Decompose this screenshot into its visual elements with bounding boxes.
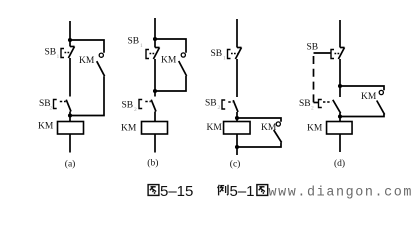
svg-text:SB: SB: [299, 99, 311, 109]
svg-text:SB: SB: [45, 47, 57, 57]
svg-text:KM: KM: [79, 56, 95, 66]
svg-text:2: 2: [218, 105, 221, 111]
svg-text:SB: SB: [205, 99, 217, 109]
svg-text:KM: KM: [361, 92, 377, 102]
svg-text:KM: KM: [307, 124, 323, 134]
svg-text:(a): (a): [65, 159, 76, 170]
svg-text:2: 2: [50, 106, 53, 112]
svg-text:SB: SB: [211, 49, 223, 59]
svg-text:KM: KM: [121, 124, 137, 134]
svg-text:KM: KM: [38, 122, 54, 132]
svg-text:5–1: 5–1: [230, 183, 255, 200]
svg-text:(b): (b): [147, 158, 158, 169]
svg-text:www.diangon.com: www.diangon.com: [269, 185, 413, 200]
svg-text:5–15: 5–15: [160, 183, 193, 200]
svg-text:SB: SB: [307, 43, 319, 53]
svg-text:1: 1: [223, 56, 226, 62]
svg-text:SB: SB: [128, 37, 140, 47]
svg-text:KM: KM: [161, 56, 177, 66]
svg-text:(c): (c): [230, 159, 241, 170]
svg-text:KM: KM: [261, 123, 277, 133]
svg-text:2: 2: [134, 107, 137, 113]
svg-text:2: 2: [311, 105, 314, 111]
svg-text:KM: KM: [207, 123, 223, 133]
svg-text:(d): (d): [334, 158, 345, 169]
svg-text:1: 1: [57, 54, 60, 60]
svg-text:SB: SB: [122, 101, 134, 111]
svg-text:1: 1: [140, 43, 143, 49]
